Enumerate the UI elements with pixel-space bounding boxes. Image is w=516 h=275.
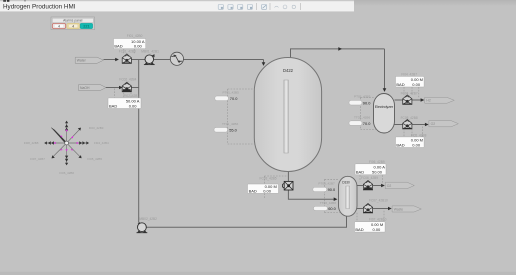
star labels <box>24 126 109 175</box>
valve FC03 <box>282 181 293 190</box>
svg-text:FI07_42B10: FI07_42B10 <box>369 218 387 222</box>
svg-text:TT02_42B6: TT02_42B6 <box>354 115 370 119</box>
svg-text:Water: Water <box>77 59 87 63</box>
valve FC01 <box>122 54 131 63</box>
svg-text:FI03_42B3: FI03_42B3 <box>89 126 104 130</box>
svg-text:BAD: BAD <box>356 170 364 175</box>
instrument TT01 on D422 <box>214 122 238 132</box>
svg-text:BAD: BAD <box>249 188 257 193</box>
wire: D422 top riser <box>291 49 385 58</box>
valve FC06 <box>363 181 372 190</box>
svg-text:Hydrogen Production HMI: Hydrogen Production HMI <box>3 4 76 11</box>
arrow into FC01 <box>115 58 119 62</box>
dash FC02 to FI02 <box>123 93 125 98</box>
svg-text:0.00: 0.00 <box>373 227 382 232</box>
svg-text:BAD: BAD <box>396 82 404 87</box>
wire: FC03 to D330 <box>288 190 334 199</box>
svg-text:H2: H2 <box>426 99 430 103</box>
svg-text:FC07_42B10: FC07_42B10 <box>369 199 388 203</box>
wire: drop into D422 top <box>263 60 265 64</box>
svg-text:D422: D422 <box>283 68 294 73</box>
valve FC02 <box>122 82 131 91</box>
svg-text:FC02_42B4: FC02_42B4 <box>119 77 136 81</box>
svg-text:PT01_42B5: PT01_42B5 <box>223 91 240 95</box>
arrow into FC02 <box>119 86 123 90</box>
teal alarm button <box>80 23 92 28</box>
star arrowheads E <box>79 141 89 144</box>
arrow on riser line <box>338 47 342 51</box>
svg-text:90.0: 90.0 <box>328 187 336 192</box>
wire: NaOH flag to FC02 valve <box>106 87 122 89</box>
vessel D330 <box>339 176 358 216</box>
arrow into D330 <box>334 197 338 201</box>
databox FI05 <box>396 133 427 147</box>
arrow to O2 flag <box>425 123 429 127</box>
svg-text:O2: O2 <box>387 184 392 188</box>
svg-text:0.00: 0.00 <box>134 44 143 49</box>
svg-text:FC03_42B5: FC03_42B5 <box>260 177 277 181</box>
dash D330 instruments <box>324 179 326 212</box>
arrow to recycle flag <box>381 184 385 188</box>
svg-text:FI01_42B0: FI01_42B0 <box>127 34 143 38</box>
pump MB02 <box>137 222 148 233</box>
svg-text:0.00: 0.00 <box>412 142 421 147</box>
databox FI04 <box>396 72 425 87</box>
wire: main feed line FC01 to D422 <box>131 59 264 61</box>
wire: D422 drain to FC03 <box>287 172 289 182</box>
D422 inner slot <box>284 80 288 153</box>
svg-text:4: 4 <box>58 24 60 28</box>
star arms <box>45 122 89 165</box>
databox FI06 <box>355 160 386 175</box>
vessel Electrolyzer <box>374 94 395 134</box>
instrument TT03 on D330 <box>314 201 337 211</box>
svg-text:FI07_42B7: FI07_42B7 <box>30 157 45 161</box>
pump MB01 <box>144 54 155 65</box>
svg-text:0.00: 0.00 <box>129 103 138 108</box>
instrument TT02 on electrolyzer <box>349 115 371 125</box>
svg-text:MB02_42B2: MB02_42B2 <box>139 217 157 221</box>
magenta markers <box>53 129 78 151</box>
wire: D330 bottom outlet <box>357 208 363 210</box>
toolbar icons <box>218 5 252 10</box>
svg-text:FC05_42B8: FC05_42B8 <box>401 116 418 120</box>
svg-text:50.00: 50.00 <box>372 170 383 175</box>
valve FC04 <box>403 95 412 104</box>
wire: pump MB02 discharge <box>146 216 346 227</box>
svg-text:FI08_42B8: FI08_42B8 <box>24 141 39 145</box>
menu icon fragments top-left <box>3 0 6 2</box>
svg-text:PT02_42B5: PT02_42B5 <box>354 94 371 98</box>
svg-text:0.00: 0.00 <box>412 82 421 87</box>
flag Water <box>75 57 103 63</box>
svg-text:BAD: BAD <box>355 227 363 232</box>
databox FC03 <box>248 177 279 194</box>
star arrowheads N <box>65 121 68 131</box>
svg-text:FC01_42B0: FC01_42B0 <box>119 50 136 54</box>
dash FI06 to FC06 <box>359 175 361 181</box>
flag H2 <box>425 97 455 103</box>
svg-text:FI02_42B1: FI02_42B1 <box>124 94 140 98</box>
star arrowheads diagonals <box>52 128 82 159</box>
svg-text:BAD: BAD <box>114 44 122 49</box>
dash FC07 to FI07 <box>356 213 358 222</box>
NW filled wedge <box>51 127 67 143</box>
dash FC03 box connectors <box>263 176 265 184</box>
wire: FC02 to branch <box>131 87 139 89</box>
title bar <box>0 0 354 12</box>
svg-text:4: 4 <box>72 24 74 28</box>
wire: down into electrolyzer <box>384 49 386 91</box>
yellow alarm button <box>67 23 80 28</box>
wire: D330 top outlet <box>357 185 363 187</box>
instrument PT02 on electrolyzer <box>349 94 371 105</box>
star arrowheads W <box>44 141 54 144</box>
svg-text:FC06_42B9: FC06_42B9 <box>361 176 378 180</box>
databox FI01 <box>114 34 146 49</box>
svg-text:NaOH: NaOH <box>80 86 90 90</box>
wire: vertical recycle branch <box>138 60 140 223</box>
bottom strip <box>0 272 516 275</box>
flag Waste <box>392 206 421 212</box>
svg-text:O2: O2 <box>431 122 436 126</box>
top-right grey strip <box>354 0 516 6</box>
wire: electrolyzer H2 outlet <box>395 99 404 101</box>
svg-text:FI04_42B4: FI04_42B4 <box>94 141 109 145</box>
svg-text:TT03_42B8: TT03_42B8 <box>320 201 336 205</box>
arrow to waste flag <box>388 207 392 211</box>
alarms panel <box>51 17 95 30</box>
svg-text:TT01_42B6: TT01_42B6 <box>222 122 238 126</box>
star arrowheads S <box>65 156 68 166</box>
svg-text:Waste: Waste <box>394 207 404 211</box>
svg-text:PT03_42B7: PT03_42B7 <box>318 181 335 185</box>
svg-text:0.00: 0.00 <box>263 188 272 193</box>
svg-text:FI05_42B5: FI05_42B5 <box>87 157 102 161</box>
databox FI07 <box>355 218 387 232</box>
svg-text:90.0: 90.0 <box>363 100 371 105</box>
valve FC05 <box>403 120 412 129</box>
flag O2 <box>429 121 459 127</box>
svg-text:MB01_42B1: MB01_42B1 <box>141 49 159 53</box>
arrow into D422 top <box>262 62 266 66</box>
svg-text:70.0: 70.0 <box>230 96 238 101</box>
svg-text:70.0: 70.0 <box>363 121 371 126</box>
svg-text:Electrolyzer: Electrolyzer <box>375 105 394 109</box>
heat exchanger <box>170 52 183 65</box>
red alarm button <box>52 23 65 28</box>
dash electrolyzer instruments <box>360 98 362 130</box>
svg-text:221: 221 <box>83 25 89 29</box>
wire: electrolyzer O2 outlet <box>395 124 404 126</box>
svg-text:FC04_42B7: FC04_42B7 <box>401 91 418 95</box>
svg-text:FI06_42B6: FI06_42B6 <box>59 171 74 175</box>
dash FI01 to FC01 <box>123 49 125 54</box>
star center <box>65 141 69 145</box>
flag O2 recycle <box>385 182 414 189</box>
instrument PT01 on D422 <box>215 91 239 101</box>
svg-text:FI04_42B7: FI04_42B7 <box>401 72 417 76</box>
instrument PT03 on D330 <box>313 181 336 192</box>
svg-text:D330: D330 <box>342 180 350 184</box>
dash D422 instruments <box>227 89 229 144</box>
svg-text:55.0: 55.0 <box>229 128 237 133</box>
svg-text:BAD: BAD <box>396 142 404 147</box>
svg-text:60.0: 60.0 <box>328 206 336 211</box>
dash FC05 to FI05 <box>403 129 405 137</box>
vessel D422 <box>254 58 321 172</box>
svg-text:BAD: BAD <box>109 103 117 108</box>
arrow to H2 flag <box>421 98 425 102</box>
flag NaOH <box>79 85 106 91</box>
dash FI04 to FC04 <box>403 87 405 96</box>
D330 inner slot <box>346 186 350 209</box>
databox FI02 <box>108 94 141 109</box>
arrows <box>115 47 428 210</box>
wire: water flag to FC01 valve <box>104 59 118 61</box>
valve FC07 <box>363 204 372 213</box>
svg-text:Alarms panel: Alarms panel <box>63 19 83 23</box>
arrow into electrolyzer <box>383 88 387 92</box>
